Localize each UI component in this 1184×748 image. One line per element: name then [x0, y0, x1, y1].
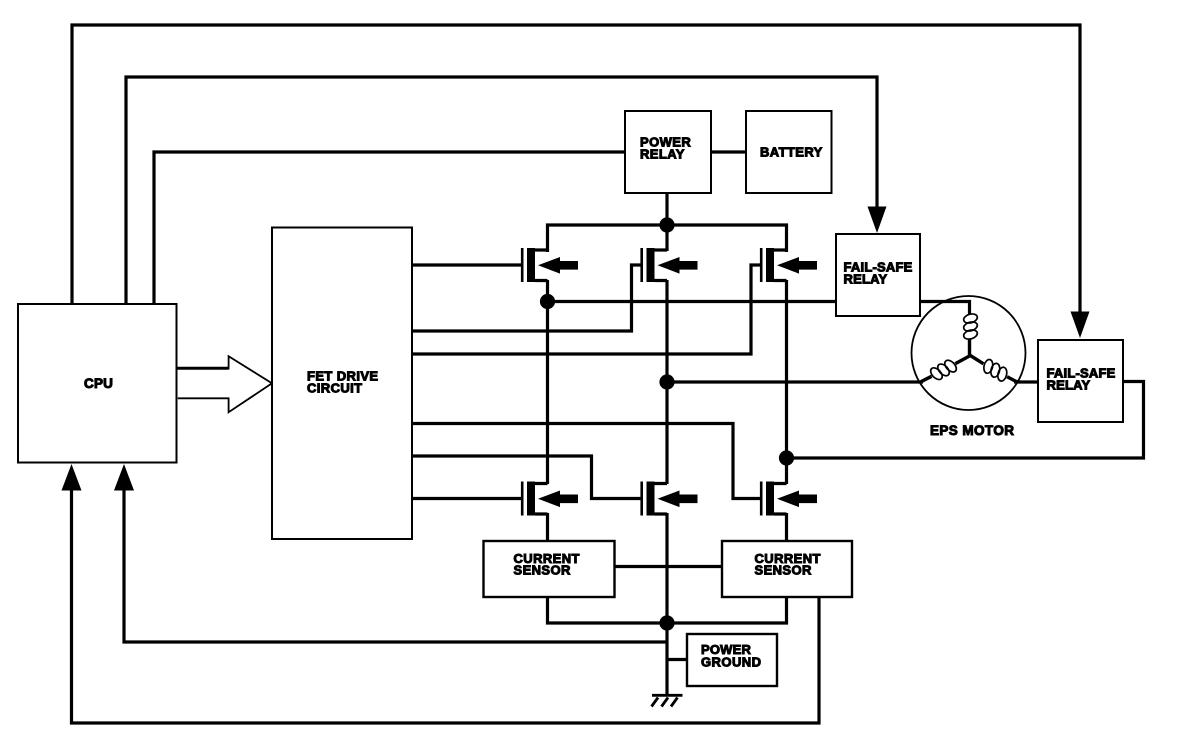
wire ground node to earth [665, 623, 668, 695]
wire Q2 source to node V [665, 280, 668, 382]
svg-text:CIRCUIT: CIRCUIT [307, 381, 363, 396]
wire node W down to Q6 drain [785, 458, 788, 484]
svg-text:BATTERY: BATTERY [760, 145, 823, 160]
motor left coil L2 [927, 356, 959, 383]
wire fail-safe relay 1 to EPS motor top coil [920, 302, 970, 315]
svg-text:EPS MOTOR: EPS MOTOR [930, 423, 1014, 438]
node W junction dot [779, 450, 794, 465]
ground node junction dot [659, 615, 674, 630]
wire power relay bottom to node B+ [665, 193, 668, 225]
transistor Q1 (high side, phase U) [522, 248, 578, 282]
wire Q2 drain [665, 225, 668, 251]
wire EPS motor right coil to fail-safe relay 2 [1014, 380, 1038, 383]
svg-text:RELAY: RELAY [844, 272, 888, 287]
wire FET drive output 3 to Q3 gate [412, 265, 761, 354]
node B+ junction dot [659, 217, 674, 232]
wire feedback to CPU from current sensor 2 [62, 464, 820, 723]
motor top coil L1 [963, 312, 979, 340]
wire rail2 from CPU top to fail-safe relay 1 [126, 77, 887, 304]
bus arrow CPU to FET drive circuit [178, 356, 273, 412]
FET drive circuit box [272, 228, 412, 540]
svg-text:SENSOR: SENSOR [755, 563, 813, 578]
wire Q4 source to current sensor 1 [546, 513, 549, 541]
svg-text:SENSOR: SENSOR [514, 563, 572, 578]
svg-text:CPU: CPU [84, 376, 113, 391]
current sensor 1 box [484, 541, 615, 597]
motor star point and top winding lead [955, 339, 969, 364]
wire Q5 source to ground node [665, 513, 668, 623]
wire feedback to CPU from ground node [114, 464, 667, 642]
wire node U down to Q4 drain [546, 302, 549, 485]
motor right winding lead [970, 355, 1019, 382]
wire FET drive output 1 to Q1 gate [412, 263, 522, 266]
wire node V to EPS motor left coil [667, 380, 923, 383]
wire rail3 from CPU top to power relay [154, 152, 625, 304]
wire top bridge rail [548, 225, 787, 252]
wire Q3 source to node W [785, 280, 788, 458]
battery box [746, 111, 832, 193]
transistor Q6 (low side, phase W) [761, 482, 817, 516]
wire FET drive output 2 to Q2 gate [412, 265, 642, 331]
transistor Q4 (low side, phase U) [522, 482, 578, 516]
fail-safe relay 1 box [836, 234, 920, 316]
power ground box [687, 634, 777, 686]
wire power relay to battery [711, 150, 746, 153]
wire node U to fail-safe relay 1 [548, 300, 837, 303]
wire node W to fail-safe relay 2 right side [787, 382, 1144, 459]
wire current sensor 1 to current sensor 2 link [614, 565, 722, 568]
wire current sensor bottoms to ground node [548, 597, 787, 623]
motor left winding lead [921, 376, 932, 381]
EPS motor circle [912, 296, 1026, 410]
wire FET drive output 4 to Q6 gate [412, 424, 761, 499]
wire FET drive output 5 to Q5 gate [412, 456, 642, 499]
node U junction dot [540, 294, 555, 309]
wire Q1 source to node U [546, 280, 549, 302]
ground symbol [652, 695, 683, 706]
transistor Q2 (high side, phase V) [642, 248, 698, 282]
current sensor 2 box [722, 541, 852, 597]
transistor Q3 (high side, phase W) [761, 248, 817, 282]
transistor Q5 (low side, phase V) [642, 482, 698, 516]
power relay box [625, 111, 711, 193]
fail-safe relay 2 box [1038, 340, 1123, 422]
svg-text:RELAY: RELAY [640, 147, 685, 162]
wire node V down to Q5 drain [665, 382, 668, 484]
svg-text:RELAY: RELAY [1047, 378, 1091, 393]
wire ground node to power ground box [667, 658, 687, 661]
CPU box [18, 304, 177, 463]
motor right coil L3 [979, 357, 1011, 384]
svg-text:GROUND: GROUND [701, 655, 761, 670]
node V junction dot [659, 374, 674, 389]
wire rail1 from CPU top to fail-safe relay 2 [72, 25, 1090, 338]
wire Q6 source to current sensor 2 [785, 513, 788, 541]
wire FET drive output 6 to Q4 gate [412, 497, 522, 500]
